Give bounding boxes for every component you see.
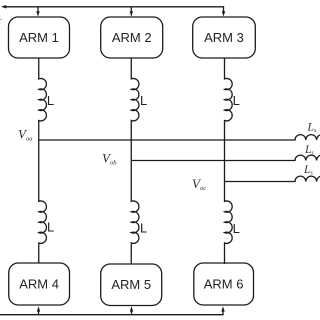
arrowhead: left end of top rail xyxy=(1,5,6,9)
box ARM 4 xyxy=(9,263,70,305)
wire: stub from top rail to ARM 2 xyxy=(130,7,132,13)
svg-text:L: L xyxy=(233,221,240,236)
svg-text:ARM 3: ARM 3 xyxy=(204,30,244,45)
svg-text:L: L xyxy=(140,221,147,236)
wire: phase c output with inductor Lc xyxy=(225,176,320,181)
wire: leg A from ARM1 through inductors to ARM4 xyxy=(39,58,47,263)
arrowhead: into ARM 5 xyxy=(130,306,133,311)
box ARM 1 xyxy=(9,17,70,58)
svg-text:ARM 6: ARM 6 xyxy=(204,276,244,291)
arrowhead: into ARM 1 xyxy=(36,11,39,16)
wire: leg B from ARM2 through inductors to ARM5 xyxy=(131,58,139,264)
wire: stub from bottom rail to ARM 5 xyxy=(131,311,133,315)
wire: phase b output with inductor Lb xyxy=(131,155,320,160)
svg-text:L: L xyxy=(140,93,147,108)
wire: bottom DC rail xyxy=(0,310,223,315)
svg-text:ARM 5: ARM 5 xyxy=(111,277,151,292)
svg-text:ARM 1: ARM 1 xyxy=(19,30,59,45)
box ARM 6 xyxy=(194,263,254,305)
box ARM 2 xyxy=(101,17,163,58)
arrowhead: into ARM 3 xyxy=(222,11,225,16)
arrowhead: into ARM 2 xyxy=(130,11,133,16)
arrowhead: into ARM 4 xyxy=(37,306,40,311)
svg-text:ARM 2: ARM 2 xyxy=(112,30,152,45)
arrowhead: into ARM 6 xyxy=(221,306,224,311)
svg-text:L: L xyxy=(47,93,54,108)
svg-text:L: L xyxy=(233,93,240,108)
box ARM 5 xyxy=(101,264,162,306)
svg-text:L: L xyxy=(47,220,54,235)
wire: stub from top rail to ARM 1 xyxy=(37,7,39,13)
svg-text:ARM 4: ARM 4 xyxy=(19,276,59,291)
wire: top DC rail xyxy=(5,7,224,13)
wire: leg C from ARM3 through inductors to ARM6 xyxy=(225,58,233,264)
wire: stub from bottom rail to ARM 4 xyxy=(38,311,40,315)
box ARM 3 xyxy=(193,17,256,58)
wire: phase a output with inductor La xyxy=(39,135,320,140)
